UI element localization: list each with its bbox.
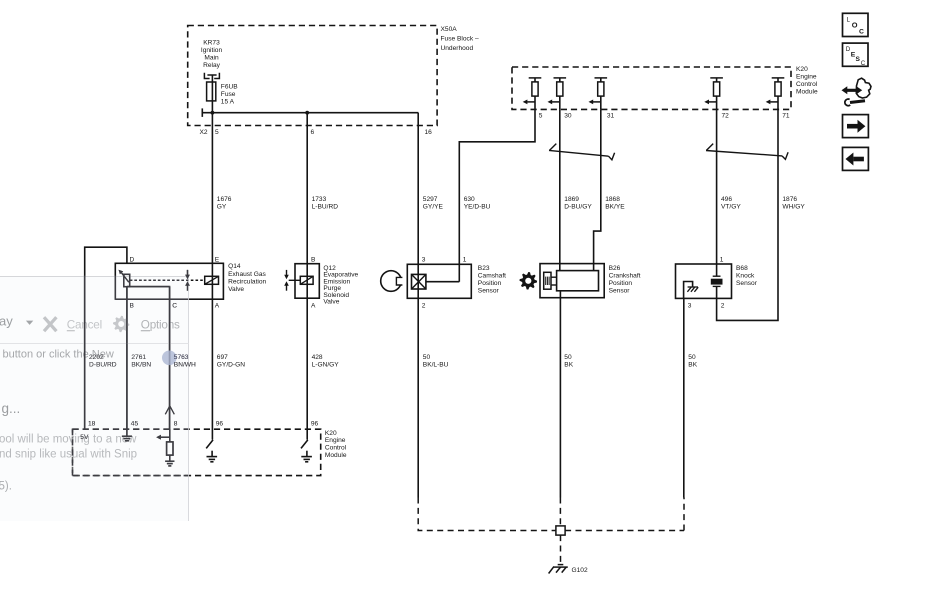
Q14 position feedback potentiometer xyxy=(124,274,130,286)
wire label 50 BK xyxy=(564,354,573,368)
B23 label xyxy=(478,265,506,295)
Q12 label xyxy=(323,265,358,306)
svg-text:18: 18 xyxy=(88,420,96,427)
svg-text:B: B xyxy=(130,303,135,310)
B26 sensor tip xyxy=(544,272,551,289)
B68 knock sensor box xyxy=(676,264,732,298)
B68 piezo element xyxy=(713,276,721,286)
wire label 2761 BK/BN xyxy=(131,354,151,368)
wire 50 BK from B26 to ground splice xyxy=(559,291,561,498)
wire 2761 BK/BN: Q14 pin B to ECM pin 45 xyxy=(126,287,128,430)
K20 engine control module label (top) xyxy=(796,66,818,96)
relay KR73 label xyxy=(201,39,223,69)
crankshaft gear symbol xyxy=(520,272,538,290)
svg-text:5763: 5763 xyxy=(174,354,189,361)
B68 label xyxy=(736,265,758,287)
junction at fuse wire xyxy=(211,111,215,115)
wire label 5297 GY/YE xyxy=(423,196,444,210)
Q12 solenoid coil xyxy=(300,276,313,284)
wire label 1868 BK/YE xyxy=(605,196,625,210)
chevron redraw xyxy=(165,406,174,414)
ECM pin 45 internal ground xyxy=(122,429,132,441)
wire label 50 BK/L-BU xyxy=(423,354,449,368)
ECM internal driver, pin 31 xyxy=(593,78,607,110)
pin 8 internals redraw xyxy=(161,429,175,466)
wire 2761 redraw xyxy=(126,287,128,430)
ECM K20 top dashed enclosure xyxy=(512,67,791,109)
fuse F6UB symbol xyxy=(207,82,216,101)
Q12 evaporative emission purge solenoid valve box xyxy=(295,264,319,299)
svg-text:BN/WH: BN/WH xyxy=(174,361,196,368)
nav icon back arrow xyxy=(843,147,869,170)
wire label 1869 D-BU/GY xyxy=(564,196,592,210)
wire label 496 VT/GY xyxy=(721,196,741,210)
Q12 pin letters B A xyxy=(311,256,316,309)
Q14 mechanical link dashed line xyxy=(130,279,205,281)
twisted pair marker (1869/1868) xyxy=(549,144,615,160)
label 5763 redraw xyxy=(174,354,196,368)
wire label 1676 GY xyxy=(217,196,232,210)
wire 5763 direction chevron xyxy=(165,406,174,414)
wire Q14 pot bottom to pin C xyxy=(127,287,170,430)
overlay toolbar: dropdown caret xyxy=(26,321,33,325)
svg-text:8: 8 xyxy=(174,420,178,427)
overlay toolbar: cancel X icon xyxy=(44,317,56,331)
ink highlight blob xyxy=(162,351,177,366)
B23 sensing element (x-box) xyxy=(412,274,426,289)
Q14 exhaust gas recirculation valve box xyxy=(115,263,223,299)
wire label 2202 D-BU/RD xyxy=(89,354,117,368)
ground splice dashed links xyxy=(418,498,684,565)
Q14 lower edge redraw xyxy=(115,273,188,299)
wire 630 YE/D-BU: ECM pin 5 jog to B23 pin 1 xyxy=(459,109,535,281)
ECM pin 96 internal switch to ground (second) xyxy=(301,440,312,462)
wire bus left end tick xyxy=(201,108,203,117)
wire 1733 L-BU/RD: pin 6 down to Q12 pin B and on to ECM pin 96 xyxy=(306,113,308,440)
overlay toolbar divider xyxy=(0,343,189,345)
label 2202 redraw xyxy=(89,354,117,368)
K20 engine control module label (bottom) xyxy=(325,430,347,459)
nav icon DESC xyxy=(843,43,869,67)
svg-text:BK/BN: BK/BN xyxy=(131,361,151,368)
wire 5763 redraw xyxy=(169,287,171,430)
nav icon next arrow xyxy=(843,115,869,138)
B26 label xyxy=(609,265,641,295)
pin letters B C redraw xyxy=(130,303,178,310)
Q12 actuator arrows xyxy=(284,270,300,291)
wire ignition bus horizontal inside X50A xyxy=(202,112,418,114)
wire 1869 D-BU/GY: ECM pin 30 to B26 xyxy=(559,109,561,270)
wire label 50 BK xyxy=(688,354,697,368)
wire 2202 redraw xyxy=(84,276,86,430)
wire label 1733 L-BU/RD xyxy=(312,196,339,210)
wire label 5763 BN/WH xyxy=(174,354,196,368)
ECM internal driver, pin 72 xyxy=(709,78,723,110)
svg-text:45: 45 xyxy=(131,420,139,427)
relay KR73 contact symbol xyxy=(204,73,219,79)
X50A label xyxy=(441,26,479,52)
pin numbers 18 45 8 redraw xyxy=(88,420,178,427)
wire ignition feed: relay through fuse, X2 pin5, Q14 pin E to ECM pin 96 xyxy=(211,75,213,440)
Q14 pin letters D E B C A xyxy=(130,256,220,309)
B23 internal link to pin 1 xyxy=(426,281,459,283)
snipping tool overlay tint xyxy=(0,276,189,521)
Q14 wiper arrow xyxy=(122,273,129,282)
B23 camshaft position sensor box xyxy=(407,264,471,298)
svg-text:2202: 2202 xyxy=(89,354,104,361)
overlay toolbar: gear icon xyxy=(113,316,129,332)
svg-text:C: C xyxy=(172,303,177,310)
wire label 630 YE/D-BU xyxy=(464,196,491,210)
splice junction square xyxy=(556,526,565,535)
junction at pin 6 wire xyxy=(305,111,309,115)
ECM internal driver, pin 71 xyxy=(770,78,784,110)
label 2761 redraw xyxy=(131,354,151,368)
B26 sensor body xyxy=(557,271,599,291)
wire 1868 BK/YE: ECM pin 31 jog to B26 xyxy=(594,109,601,270)
Q14 arrows redraw xyxy=(185,270,190,291)
wire 1876 WH/GY: ECM pin 71 down, left to B68 pin 2 xyxy=(717,109,778,320)
svg-text:D-BU/RD: D-BU/RD xyxy=(89,361,117,368)
svg-text:5V: 5V xyxy=(80,434,89,441)
Q14 label xyxy=(228,263,266,293)
pin 45 ground redraw xyxy=(122,429,132,441)
ground G102 symbol xyxy=(549,565,568,574)
wire 2202 D-BU/RD: Q14 pin D loop to ECM pin 18 xyxy=(85,247,127,429)
ECM internal driver, pin 5 xyxy=(527,78,541,110)
wire 496 VT/GY: ECM pin 72 to B68 pin 1 xyxy=(716,109,718,276)
wire label 1876 WH/GY xyxy=(782,196,805,210)
Q14 solenoid coil xyxy=(205,276,219,284)
B26 crankshaft position sensor box xyxy=(540,264,604,298)
fuse F6UB label xyxy=(221,83,238,105)
nav icon hand with arrow and wrench xyxy=(842,78,872,105)
wire 50 BK from B68 pin 3 to ground splice xyxy=(683,298,685,497)
twisted pair marker (496/1876) xyxy=(706,144,788,160)
fuse block X50A dashed enclosure xyxy=(188,26,437,126)
ECM pin 96 internal switch to ground xyxy=(206,440,217,462)
ECM internal driver, pin 30 xyxy=(552,78,566,110)
ECM pin 8 internal: arrow, resistor, ground xyxy=(161,429,175,466)
B68 internal case ground xyxy=(684,282,693,299)
wire label 428 L-GN/GY xyxy=(312,354,340,368)
svg-text:2761: 2761 xyxy=(131,354,146,361)
wire label 697 GY/D-GN xyxy=(217,354,245,368)
Q14 actuator arrows xyxy=(185,270,190,291)
nav icon LOC xyxy=(843,13,869,36)
B26 tip-body links xyxy=(551,277,557,285)
camshaft reluctor ring symbol xyxy=(381,271,402,292)
B68 pin numbers 1 3 2 xyxy=(688,256,725,309)
B23 pin numbers 3 1 2 xyxy=(422,256,467,309)
ECM K20 bottom dashed enclosure xyxy=(73,429,321,475)
wire 5297 GY/YE: pin 16 down through B23 to ground splice xyxy=(417,113,419,498)
ECM bottom box edges redraw xyxy=(73,429,189,475)
